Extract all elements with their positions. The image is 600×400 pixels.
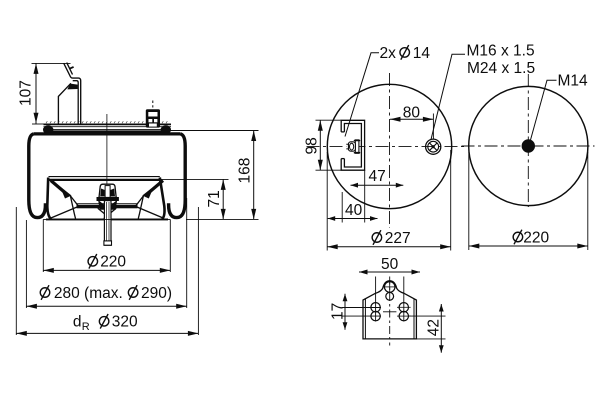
- svg-text:71: 71: [206, 190, 223, 207]
- svg-text:47: 47: [369, 168, 386, 185]
- svg-text:50: 50: [381, 256, 399, 273]
- svg-text:320: 320: [112, 314, 138, 331]
- svg-text:d: d: [73, 314, 82, 331]
- svg-text:220: 220: [523, 229, 549, 246]
- svg-text:168: 168: [237, 158, 254, 184]
- svg-text:280 (max.: 280 (max.: [54, 285, 123, 302]
- svg-text:R: R: [82, 321, 90, 333]
- svg-text:80: 80: [403, 104, 421, 121]
- svg-text:M24 x 1.5: M24 x 1.5: [467, 60, 535, 77]
- svg-text:227: 227: [385, 230, 411, 247]
- svg-text:14: 14: [413, 45, 431, 62]
- svg-text:107: 107: [18, 80, 35, 106]
- svg-text:M16 x 1.5: M16 x 1.5: [467, 43, 535, 60]
- svg-text:42: 42: [426, 319, 443, 336]
- svg-text:98: 98: [304, 137, 321, 154]
- svg-text:40: 40: [345, 202, 363, 219]
- svg-text:2x: 2x: [380, 45, 397, 62]
- svg-text:17: 17: [330, 303, 347, 320]
- svg-text:290): 290): [141, 285, 172, 302]
- svg-text:220: 220: [100, 254, 126, 271]
- svg-text:M14: M14: [558, 73, 589, 90]
